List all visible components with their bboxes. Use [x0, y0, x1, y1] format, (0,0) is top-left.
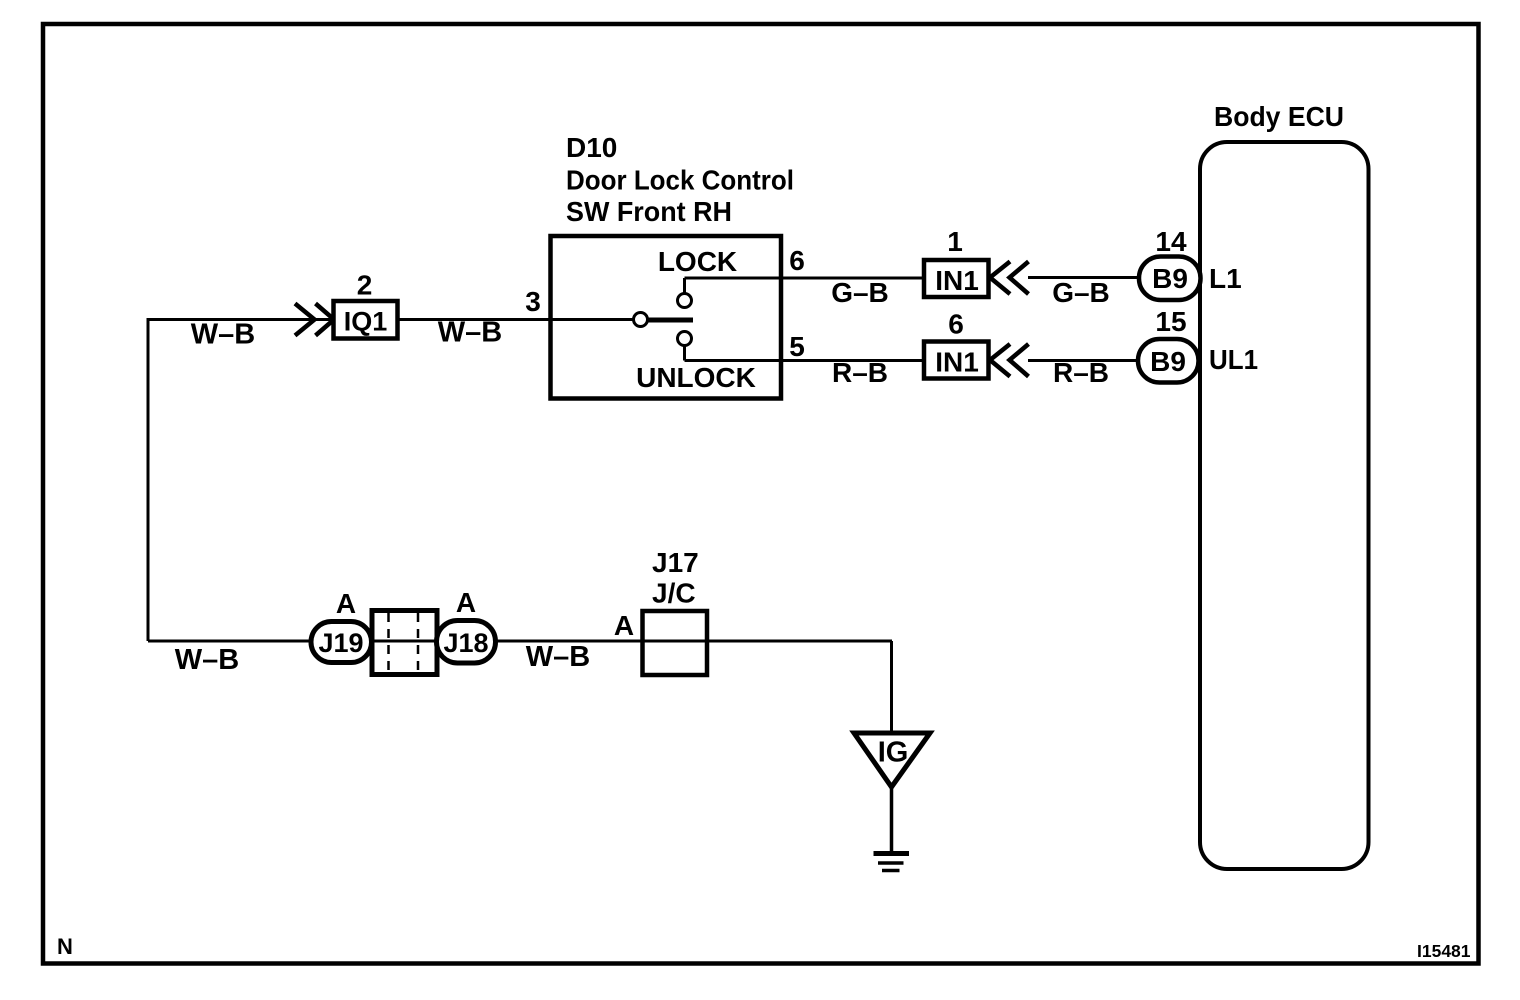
svg-text:W–B: W–B — [191, 319, 255, 351]
wire R-B unlock to IN1 — [685, 359, 925, 362]
svg-text:J/C: J/C — [652, 578, 696, 609]
Body ECU box — [1200, 142, 1369, 869]
svg-text:G–B: G–B — [831, 277, 889, 308]
splice block — [372, 611, 437, 675]
svg-text:W–B: W–B — [526, 641, 590, 673]
svg-text:A: A — [456, 587, 476, 618]
svg-text:G–B: G–B — [1052, 277, 1110, 308]
svg-text:15: 15 — [1155, 306, 1186, 337]
svg-text:UNLOCK: UNLOCK — [636, 362, 756, 393]
wire W-B from left rail to IQ1 — [148, 320, 333, 642]
svg-text:LOCK: LOCK — [658, 246, 737, 277]
wire G-B to B9 — [1028, 276, 1140, 279]
wire R-B to B9 — [1028, 359, 1140, 362]
svg-text:Door Lock Control: Door Lock Control — [566, 165, 794, 196]
switch common contact — [634, 313, 648, 327]
svg-text:J17: J17 — [652, 547, 699, 578]
junction connector IN1 (unlock) — [924, 342, 989, 379]
unlock contact stub — [683, 346, 686, 361]
svg-text:A: A — [614, 610, 634, 641]
svg-text:IG: IG — [878, 737, 909, 769]
svg-text:14: 14 — [1155, 226, 1187, 257]
junction connector IN1 (lock) — [924, 260, 989, 297]
power source IG — [854, 733, 930, 787]
svg-text:I15481: I15481 — [1417, 941, 1471, 961]
svg-text:SW Front RH: SW Front RH — [566, 196, 732, 227]
switch arm — [648, 318, 693, 323]
junction connector J17 box — [643, 611, 708, 675]
male connector arrows into IQ1 — [295, 304, 315, 336]
svg-text:L1: L1 — [1209, 263, 1242, 294]
switch D10 box — [551, 236, 782, 399]
wire W-B from IQ1 to switch — [398, 318, 553, 321]
svg-text:IN1: IN1 — [935, 265, 979, 296]
svg-text:3: 3 — [525, 286, 541, 317]
svg-text:5: 5 — [789, 331, 805, 362]
svg-text:B9: B9 — [1150, 346, 1186, 377]
svg-text:IN1: IN1 — [935, 347, 979, 378]
svg-text:J18: J18 — [443, 628, 488, 658]
wire W-B from J18 to J17 — [496, 640, 893, 643]
lock contact — [678, 294, 692, 308]
svg-text:6: 6 — [789, 245, 805, 276]
wire IG to ground — [890, 787, 894, 852]
lock contact stub — [683, 278, 686, 294]
unlock contact — [678, 332, 692, 346]
svg-text:UL1: UL1 — [1209, 344, 1258, 375]
wire through splice — [371, 640, 437, 643]
connector B9 (UL1) — [1138, 339, 1199, 383]
svg-text:B9: B9 — [1152, 263, 1188, 294]
switch common wire — [552, 318, 634, 321]
svg-text:W–B: W–B — [438, 317, 502, 349]
connector B9 (L1) — [1139, 257, 1201, 301]
svg-text:2: 2 — [357, 270, 373, 301]
svg-text:Body ECU: Body ECU — [1214, 101, 1344, 132]
svg-text:A: A — [336, 588, 356, 619]
connector J18 — [437, 621, 496, 664]
svg-text:D10: D10 — [566, 132, 617, 163]
svg-text:J19: J19 — [318, 628, 363, 658]
wire down to IG — [890, 641, 893, 733]
connector IQ1 — [334, 301, 398, 339]
svg-text:W–B: W–B — [175, 644, 239, 676]
svg-text:N: N — [57, 934, 73, 959]
female arrows at IN1 (lock) — [990, 262, 1010, 295]
wire G-B lock to IN1 — [685, 277, 925, 280]
svg-text:R–B: R–B — [1053, 357, 1109, 388]
ground rail wire W-B — [148, 640, 312, 643]
ground — [874, 851, 910, 856]
connector J19 — [311, 622, 372, 663]
svg-text:1: 1 — [947, 226, 963, 257]
female arrows at IN1 (unlock) — [990, 344, 1010, 377]
svg-text:R–B: R–B — [832, 357, 888, 388]
svg-text:6: 6 — [948, 309, 964, 340]
svg-text:IQ1: IQ1 — [344, 307, 388, 337]
